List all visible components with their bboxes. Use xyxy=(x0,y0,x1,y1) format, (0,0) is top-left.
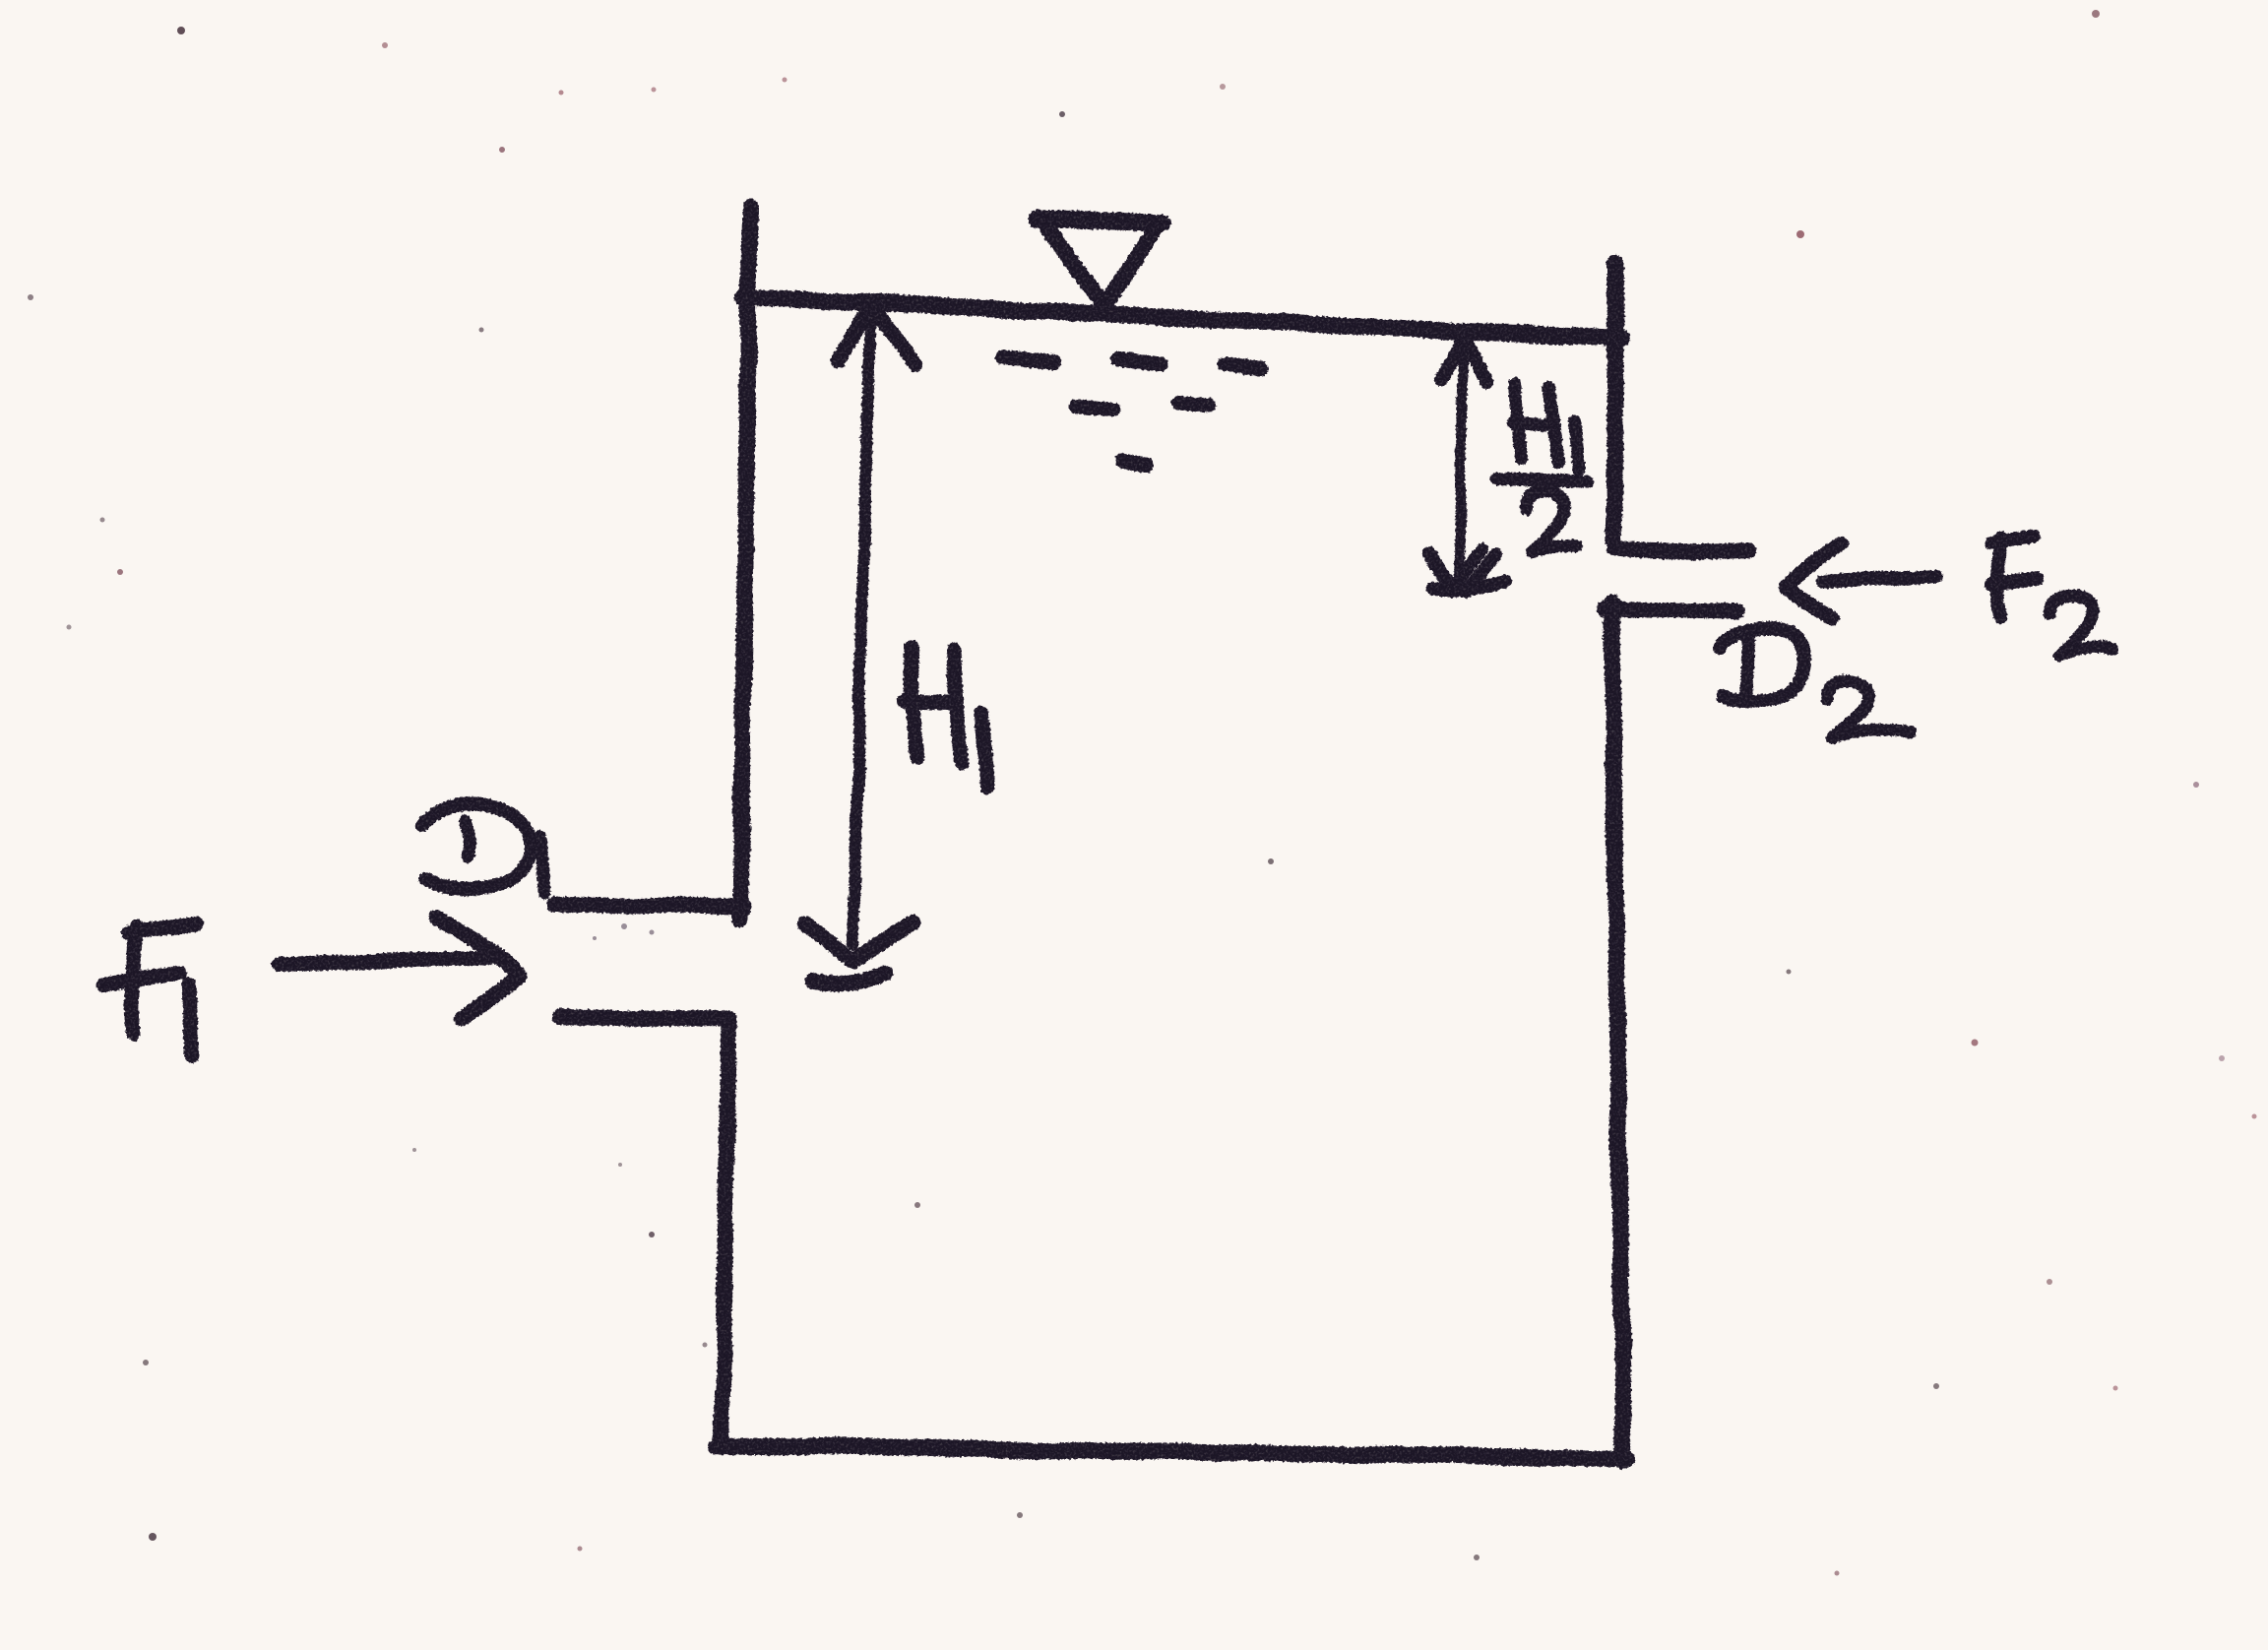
F2 flow arrowhead xyxy=(1786,542,1840,619)
H1/2 dimension bottom arrowhead xyxy=(1427,549,1506,591)
tank water-surface top line xyxy=(744,297,1622,339)
tank right wall lower segment xyxy=(1611,603,1623,1461)
outlet pipe D2 lower wall xyxy=(1605,609,1736,611)
label F2 xyxy=(1990,538,2037,616)
water dash 3 xyxy=(1225,364,1260,368)
outlet pipe D2 upper wall xyxy=(1615,549,1748,552)
H1/2 dimension top arrowhead xyxy=(1440,337,1487,383)
H1 dimension bottom arrowhead xyxy=(805,921,913,984)
inlet pipe D1 upper wall xyxy=(554,905,745,907)
F2 flow arrow shaft xyxy=(1823,575,1937,582)
label D1 xyxy=(422,805,531,888)
inlet pipe D1 lower wall and tank left wall lower segment xyxy=(559,1017,729,1445)
water surface nabla symbol left side xyxy=(1047,228,1102,303)
tank left wall upper segment xyxy=(740,208,750,918)
label H1/2 xyxy=(1514,384,1578,470)
label H1 xyxy=(906,648,986,786)
label D2 xyxy=(1720,628,1804,701)
water dash 1 xyxy=(1003,356,1054,360)
faint smudge marks under inlet pipe xyxy=(593,923,655,940)
tank bottom xyxy=(718,1445,1628,1458)
H1 dimension top arrowhead xyxy=(838,305,917,365)
water surface nabla symbol right side xyxy=(1105,230,1155,303)
water surface nabla symbol top bar xyxy=(1037,219,1163,223)
H1/2 dimension line xyxy=(1458,343,1463,583)
water dash 2 xyxy=(1118,358,1161,363)
H1 dimension line xyxy=(853,311,870,943)
F1 flow arrowhead xyxy=(437,917,520,1019)
tank right wall upper segment xyxy=(1614,263,1615,540)
water dash 6 xyxy=(1123,462,1146,466)
water dash 5 xyxy=(1179,403,1209,406)
water dash 4 xyxy=(1076,407,1113,411)
F1 flow arrow shaft xyxy=(279,957,495,964)
label F1 xyxy=(102,923,198,1055)
